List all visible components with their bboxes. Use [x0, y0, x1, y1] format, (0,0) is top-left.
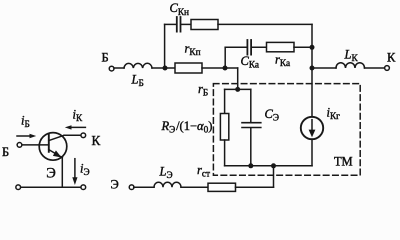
label LЭ	[159, 164, 173, 181]
terminal rail left	[16, 185, 21, 190]
transistor emitter stroke	[49, 150, 63, 158]
arrow iК	[65, 125, 86, 129]
wire rКп to node B	[202, 67, 238, 69]
label iЭ	[80, 162, 90, 179]
label rКп	[185, 42, 201, 59]
label rст	[197, 163, 210, 180]
label iБ	[21, 114, 30, 131]
wire Б to LБ	[114, 67, 124, 69]
wire node B up	[224, 47, 226, 68]
wire LЭ to rст	[181, 186, 208, 188]
svg-text:К: К	[387, 51, 396, 65]
wire RЭ bottom	[224, 140, 226, 166]
resistor rКа	[267, 42, 295, 51]
wire CКа to rКа	[252, 46, 267, 48]
node G junction	[271, 163, 276, 168]
resistor (top branch, unlabeled)	[191, 20, 218, 30]
terminal К (equivalent circuit)	[385, 66, 390, 71]
wire base	[22, 144, 49, 146]
terminal Б (transistor base)	[17, 143, 22, 148]
label CКа	[241, 54, 260, 71]
wire to CЭ top	[250, 89, 252, 122]
svg-text:ТМ: ТМ	[334, 155, 353, 169]
label К transistor	[92, 133, 101, 148]
terminal К (transistor collector)	[81, 133, 86, 138]
terminal Э (equivalent circuit)	[129, 185, 134, 190]
capacitor CКа	[247, 40, 251, 55]
transistor collector stroke	[49, 135, 64, 140]
transistor Q circle	[39, 133, 67, 161]
node B junction	[223, 66, 228, 71]
wire inner rail	[225, 165, 312, 167]
wire to RЭ top	[224, 89, 226, 113]
label RЭ/(1-α0)	[161, 119, 213, 136]
current source iКг	[301, 117, 323, 139]
svg-text:К: К	[92, 133, 101, 148]
dashed box TM	[213, 84, 360, 176]
wire LК to К	[365, 67, 385, 69]
svg-text:Б: Б	[102, 51, 109, 65]
wire emitter rail	[20, 186, 81, 188]
label LК	[344, 47, 359, 64]
wire emitter	[61, 157, 63, 187]
node E junction	[235, 87, 240, 92]
label rКа	[275, 53, 290, 70]
wire riser rст	[273, 166, 275, 187]
label Б equivalent	[102, 51, 109, 65]
inductor LЭ	[154, 182, 181, 187]
label iКг	[327, 106, 341, 123]
resistor rст	[208, 183, 236, 191]
wire rБ branch	[237, 68, 239, 89]
svg-text:Э: Э	[111, 178, 119, 192]
label ТМ	[334, 155, 353, 169]
label rБ	[198, 82, 208, 99]
wire rКа to node C	[294, 46, 312, 48]
capacitor CЭ	[242, 123, 261, 128]
wire source bottom	[311, 139, 313, 166]
resistor rКп	[175, 63, 202, 73]
wire top right	[218, 23, 312, 25]
inductor LК	[336, 63, 365, 68]
node D junction	[310, 66, 315, 71]
node C junction	[310, 45, 315, 50]
terminal Б (equivalent circuit)	[109, 66, 114, 71]
label iК	[73, 108, 83, 125]
label LБ	[131, 73, 144, 90]
wire CКн to resistor	[181, 23, 191, 25]
wire Э to LЭ	[134, 186, 154, 188]
wire top left	[165, 23, 176, 25]
resistor RЭ/(1-α0)	[220, 114, 228, 141]
terminal rail right	[81, 185, 86, 190]
svg-text:Э: Э	[46, 165, 56, 181]
capacitor CКн	[177, 17, 181, 32]
arrow iЭ	[72, 159, 77, 185]
wire right vertical	[311, 24, 313, 117]
label К equivalent	[387, 51, 396, 65]
arrow iБ	[17, 134, 36, 138]
label Э transistor	[46, 165, 56, 181]
label Б transistor	[2, 145, 9, 159]
label Э equivalent	[111, 178, 119, 192]
label CКн	[170, 1, 190, 18]
node F junction	[248, 163, 253, 168]
node A junction	[163, 66, 168, 71]
svg-text:Б: Б	[2, 145, 9, 159]
label CЭ	[265, 107, 279, 124]
wire inner top	[225, 88, 251, 90]
wire to CКа	[225, 46, 246, 48]
wire collector	[64, 134, 81, 136]
wire node A up	[164, 24, 166, 68]
wire CЭ bottom	[250, 128, 252, 166]
wire rст to riser	[236, 186, 274, 188]
inductor LБ	[124, 63, 152, 68]
transistor base bar	[48, 135, 50, 152]
wire LБ to rКп	[152, 67, 175, 69]
wire node D to LК	[312, 67, 336, 69]
